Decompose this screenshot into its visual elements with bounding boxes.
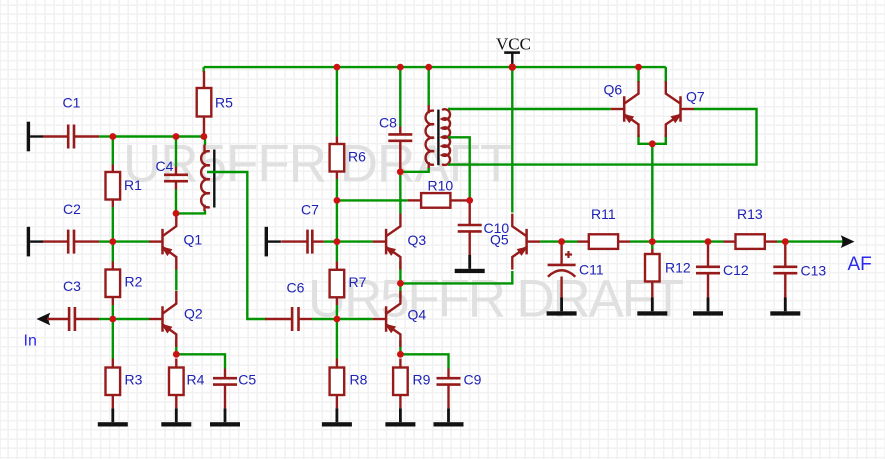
capacitor C11 [548,251,576,277]
wire Q6 base [449,108,611,110]
svg-text:R8: R8 [350,372,368,388]
junction [334,316,341,323]
wire Q4 emitter node [400,340,448,369]
wire L1 tap [207,172,266,319]
wire C6 to node [312,318,337,320]
svg-text:R7: R7 [349,274,367,290]
wire R11 to node [630,240,652,242]
junction [397,168,404,175]
wire Q1 base [113,240,149,242]
wire R1 column [112,137,114,165]
junction [109,133,116,140]
wire Q1 emitter to Q2 collector [175,269,177,291]
svg-text:Q1: Q1 [184,232,203,248]
svg-text:C13: C13 [801,263,827,279]
resistor R5 [197,71,212,137]
ground GND11 [770,298,800,316]
inductor L1 [201,145,210,212]
junction [649,238,656,245]
svg-text:C3: C3 [63,278,81,294]
svg-text:R10: R10 [428,178,454,194]
junction [397,64,404,71]
wire Q3 collector [399,172,402,214]
svg-text:R2: R2 [125,274,143,290]
wire C2 to node [99,240,113,242]
wire R6 top [336,67,338,136]
svg-text:C5: C5 [238,372,256,388]
capacitor C5 [213,369,237,409]
wire Q2 emitter node [176,340,225,369]
svg-text:C2: C2 [63,201,81,217]
resistor R3 [106,359,121,409]
wire Q2 base [113,318,149,320]
wire R2-R3 column [112,305,114,359]
junction [334,64,341,71]
junction [397,280,404,287]
resistor R2 [106,262,121,306]
wire L1 top [204,137,206,146]
junction [109,316,116,323]
svg-text:R13: R13 [737,206,763,222]
resistor R1 [106,165,121,208]
svg-text:R5: R5 [215,95,233,111]
core T1 [437,110,439,166]
junction [334,238,341,245]
wire Q3-Q5 emitter link [400,271,512,283]
wire node to C12 [652,240,723,242]
ground GND6 [434,408,464,426]
svg-text:C6: C6 [287,280,305,296]
svg-text:C7: C7 [301,201,319,217]
wire T1 secondary mid tap [448,136,450,138]
wire VCC rail [204,66,666,68]
capacitor C4 [164,167,188,190]
wire R7 top [336,242,338,262]
svg-text:Q7: Q7 [686,89,705,105]
junction [109,238,116,245]
junction [782,238,789,245]
ground GND4 [322,408,352,426]
svg-text:C8: C8 [379,115,397,131]
transistor Q2 [149,291,176,347]
wire R5 top [202,67,204,72]
junction [173,210,180,217]
resistor R9 [393,359,408,409]
svg-text:Q6: Q6 [604,82,623,98]
wire T1 secondary bottom tap [448,163,450,165]
capacitor C13 [773,242,797,298]
wire R1-R2 column [112,207,114,262]
inductor T1 primary [426,105,434,168]
capacitor C8 [388,127,412,172]
terminal P3 [265,227,281,257]
port AF arrow [841,235,855,248]
wire C1 to node [99,135,113,137]
wire VCC to Q5 collector [511,67,513,212]
transistor Q1 [149,214,176,270]
core L1 [213,150,215,208]
power VCC [504,51,520,54]
wire T1 secondary top tap [448,108,450,110]
ground GND2 [161,408,191,426]
wire C4 bottom node [176,190,205,214]
junction [201,133,208,140]
svg-text:C1: C1 [63,95,81,111]
svg-text:R12: R12 [665,260,691,276]
junction [649,140,656,147]
junction [558,238,565,245]
svg-text:C4: C4 [156,158,174,174]
wire R6 bottom [336,179,338,242]
transistor Q3 [373,214,401,270]
capacitor C7 [281,230,324,254]
wire R12 top [651,242,653,249]
wire Q3 base [337,240,373,242]
ground GND9 [637,298,667,316]
transistor Q4 [373,291,401,347]
wire Q4 base [337,318,373,320]
svg-text:In: In [24,333,37,350]
ground GND7 [455,255,485,273]
resistor R11 [578,234,631,249]
wire R8 top [336,319,338,359]
svg-text:Q4: Q4 [408,307,427,323]
ground GND10 [693,298,723,316]
wire output rail [562,240,578,242]
wire C7 to node [324,240,337,242]
svg-text:C9: C9 [464,372,482,388]
port In arrow [37,313,51,326]
wire R10 branch [337,199,408,201]
terminal P1 [27,122,43,152]
wire Q3 emitter node [399,262,401,284]
capacitor C3 [47,307,99,331]
transistor Q7 [666,81,694,137]
capacitor C12 [696,242,720,298]
svg-text:R4: R4 [187,372,205,388]
svg-text:R3: R3 [125,372,143,388]
wire C11 bottom lead [560,277,562,298]
inductor T1 secondary [442,109,450,165]
junction [635,64,642,71]
capacitor C6 [265,307,312,331]
svg-text:R1: R1 [124,177,142,193]
wire T1 primary top [428,67,430,105]
ground GND8 [547,298,577,316]
terminal P2 [27,227,43,257]
capacitor C10 [458,200,482,255]
wire T1 mid tap [449,137,470,200]
wire Q4 collector [399,283,401,298]
transistor Q6 [611,81,639,137]
wire Q6 collector [637,67,639,82]
wire Q7 collector [665,67,667,82]
svg-text:VCC: VCC [496,35,531,54]
junction [466,197,473,204]
wire Q6 emitter [639,135,653,144]
wire C8 top [399,67,401,126]
wire Q7 base loop [449,109,757,165]
junction [397,351,404,358]
svg-text:C12: C12 [723,262,749,278]
resistor R8 [330,359,345,409]
wire Q7 emitter [652,135,666,144]
wire C13 to AF [785,240,843,242]
svg-text:R6: R6 [348,149,366,165]
resistor R12 [645,249,660,298]
wire C8 bottom node [400,168,428,172]
resistor R13 [724,234,778,249]
ground GND3 [210,408,240,426]
wire C11 top lead [560,242,562,265]
capacitor C1 [43,125,99,149]
svg-text:R11: R11 [591,206,616,222]
wire Q6Q7 node down [651,144,653,242]
resistor R10 [408,193,470,208]
svg-text:C11: C11 [579,262,604,278]
resistor R6 [330,137,345,180]
junction [334,197,341,204]
junction [705,238,712,245]
svg-text:R9: R9 [413,372,431,388]
wire Q5 base [540,240,562,242]
junction [173,133,180,140]
wire row1 [113,135,204,137]
svg-text:AF: AF [848,254,872,275]
resistor R7 [330,262,345,306]
ground GND5 [385,408,415,426]
transistor Q5 [512,214,540,270]
wire R13 to C13 [777,240,785,242]
svg-text:Q2: Q2 [184,306,203,322]
capacitor C2 [43,230,99,254]
capacitor C9 [437,369,461,409]
junction [425,64,432,71]
svg-text:Q3: Q3 [408,232,427,248]
wire R7 bottom [336,305,338,319]
svg-text:Q5: Q5 [490,232,509,248]
junction [173,351,180,358]
wire C4 top [175,137,177,167]
resistor R4 [169,359,184,409]
junction [509,63,516,70]
wire C3 to node [99,318,113,320]
ground GND1 [98,408,128,426]
